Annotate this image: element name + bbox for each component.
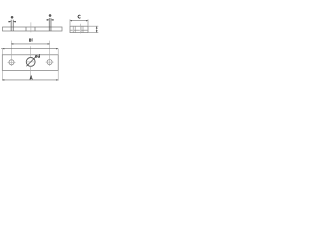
hole 1	[9, 60, 14, 65]
label diameter d	[35, 54, 40, 58]
dimension B1	[11, 43, 49, 45]
side view bar outline	[3, 27, 63, 31]
hole 3	[47, 60, 52, 65]
slot S3 width dim arrows	[47, 19, 54, 21]
dimension C arrows	[70, 20, 88, 21]
end view horizontal hidden line	[70, 29, 87, 31]
front view outline	[2, 55, 58, 71]
slot S1 width dim arrows	[8, 21, 16, 23]
dimension A	[2, 79, 58, 81]
B extension lines	[2, 49, 58, 55]
hole 2 hidden lines (side view)	[26, 27, 35, 31]
leader for d	[26, 57, 35, 66]
end view centerline	[80, 24, 82, 34]
thickness dim right of end view	[88, 26, 98, 32]
hole 3 centerlines	[46, 41, 54, 66]
dimension B line	[1, 48, 58, 50]
end view interior hidden lines	[73, 26, 83, 32]
A extension lines	[2, 71, 58, 81]
hole 2 centerline (side view)	[30, 22, 32, 32]
label C	[78, 15, 80, 18]
slot S1 hidden lines	[11, 20, 13, 31]
label A	[30, 76, 32, 80]
dimension C line	[70, 19, 88, 26]
label B1	[29, 39, 32, 42]
label e (S1)	[11, 16, 13, 18]
hole 2 centerlines	[26, 46, 36, 80]
hole 2 (large)	[26, 58, 35, 67]
hole 1 centerlines	[8, 41, 16, 66]
end view outline	[70, 26, 88, 32]
label e (S3)	[49, 15, 51, 17]
slot S3 hidden lines	[49, 18, 51, 31]
